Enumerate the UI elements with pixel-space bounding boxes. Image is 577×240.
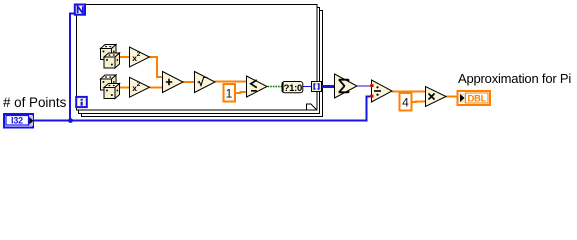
svg-text:4: 4 [402, 96, 409, 110]
svg-text:DBL: DBL [467, 94, 486, 105]
svg-text:Approximation for Pi: Approximation for Pi [458, 71, 571, 86]
svg-text:# of Points: # of Points [3, 95, 67, 110]
svg-text:1: 1 [226, 87, 233, 101]
svg-text:?1:0: ?1:0 [284, 83, 302, 94]
svg-text:2: 2 [137, 51, 141, 58]
svg-text:I32: I32 [11, 115, 23, 125]
svg-text:2: 2 [137, 81, 141, 88]
